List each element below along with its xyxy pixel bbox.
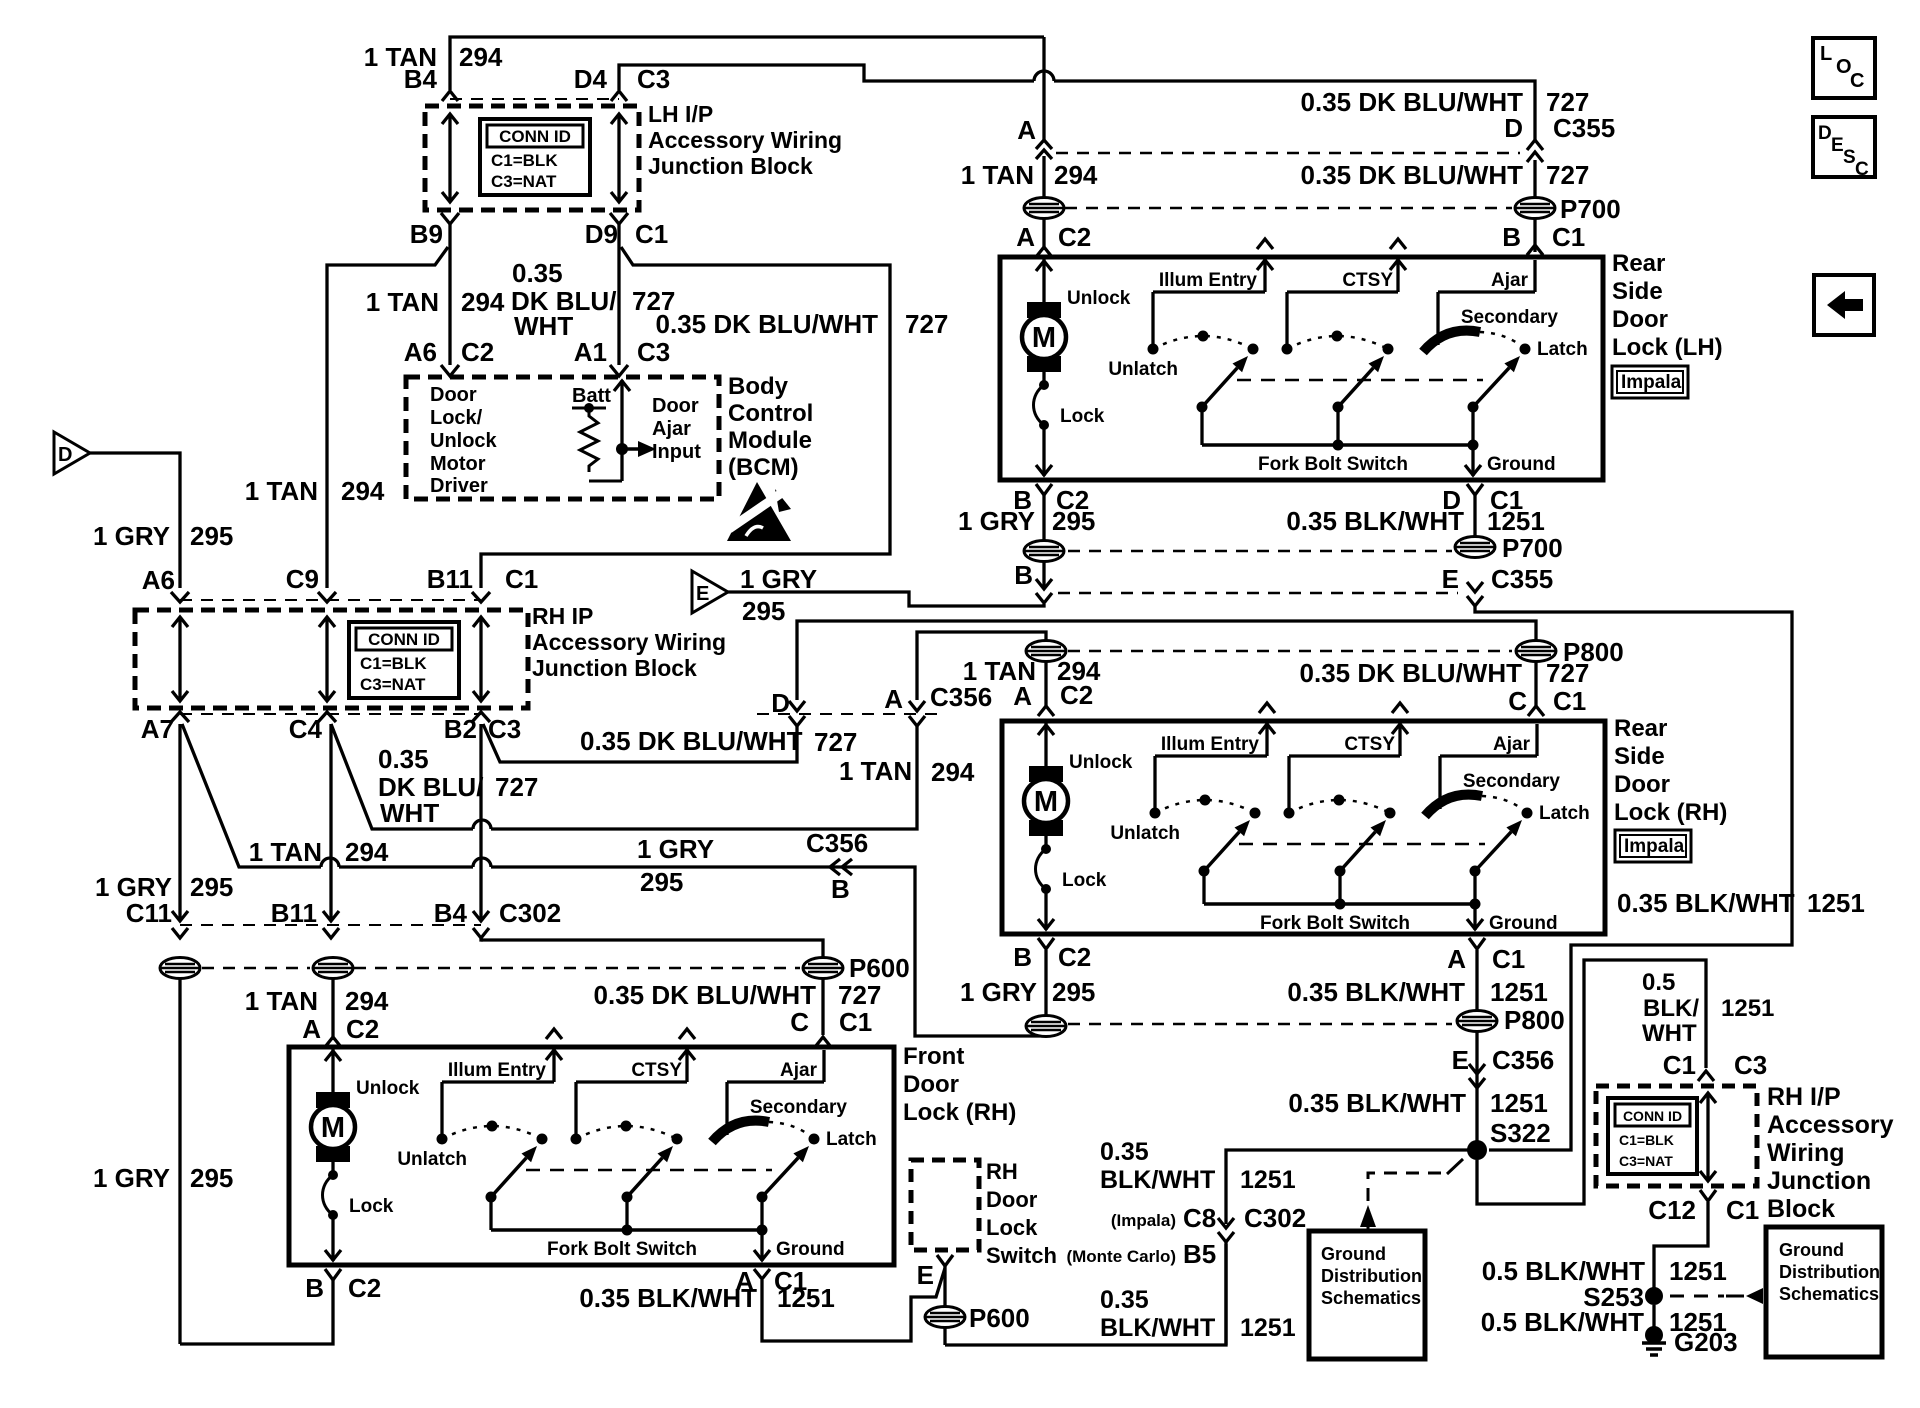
BCM door ajar input wire [614, 380, 630, 481]
svg-text:Fork Bolt Switch: Fork Bolt Switch [1260, 913, 1410, 934]
svg-text:Lock (RH): Lock (RH) [903, 1099, 1016, 1126]
LOC legend box [1813, 38, 1875, 98]
svg-text:C3: C3 [488, 714, 521, 744]
svg-text:295: 295 [1052, 506, 1095, 536]
label P600 [849, 953, 910, 983]
wire 0.35 BLK/WHT 1251 E/C355 to S322 [1475, 606, 1792, 1150]
wire 727 P800 to rear RH pin C [1534, 661, 1537, 706]
svg-text:C356: C356 [930, 682, 992, 712]
CONN ID table (LH junction block) [480, 119, 590, 195]
svg-text:727: 727 [838, 980, 881, 1010]
svg-text:Driver: Driver [430, 475, 488, 497]
svg-text:Body: Body [728, 373, 789, 400]
svg-text:Illum Entry: Illum Entry [448, 1060, 547, 1081]
grommet on 1 GRY (P800 row 2) [1026, 1016, 1066, 1037]
connector C355 lower face (dashed) [1058, 592, 1458, 595]
pin A of C355 (294) [1017, 115, 1052, 159]
svg-text:0.5: 0.5 [1642, 969, 1675, 996]
pin B2/C3 of RH IP junction block [444, 712, 522, 744]
pin C4 of RH IP junction block [289, 712, 336, 744]
svg-text:Input: Input [652, 441, 701, 463]
svg-text:Lock (LH): Lock (LH) [1612, 334, 1723, 361]
svg-text:B2: B2 [444, 714, 477, 744]
pin C8/B5 chevrons on C302 [1218, 1218, 1234, 1242]
label RH I/P Accessory Wiring Junction Block (lower) [1767, 1083, 1894, 1223]
svg-text:Ground: Ground [1489, 913, 1558, 934]
svg-text:C302: C302 [1244, 1203, 1306, 1233]
svg-text:M: M [321, 1112, 345, 1144]
svg-text:M: M [1032, 322, 1056, 354]
svg-text:C1: C1 [1552, 222, 1585, 252]
svg-text:(Impala): (Impala) [1111, 1211, 1176, 1230]
svg-text:CTSY: CTSY [1342, 270, 1393, 291]
rear side door lock (RH) illum entry switch [1110, 703, 1275, 904]
svg-text:Unlock: Unlock [1069, 752, 1133, 773]
label P800 [1563, 637, 1624, 667]
pin D of C355 [1504, 113, 1615, 162]
wire front ground A/C1 to P600 bus [762, 1268, 945, 1341]
label S322 [1490, 1118, 1551, 1148]
svg-text:C3=NAT: C3=NAT [360, 675, 426, 694]
svg-text:727: 727 [1546, 658, 1589, 688]
CONN ID table (RH I/P lower block) [1608, 1098, 1697, 1174]
label 1 TAN 294 (C9 wire) [245, 476, 385, 506]
dashed line P600 row [202, 967, 800, 970]
label P700 [1560, 194, 1621, 224]
label Rear Side Door Lock (LH) [1612, 250, 1723, 361]
wire E through P600 to C302 [945, 1244, 1226, 1345]
label 0.35 DK BLU/WHT (D9 wire) [511, 258, 675, 341]
svg-text:C1: C1 [505, 564, 538, 594]
svg-text:C3: C3 [637, 337, 670, 367]
svg-text:WHT: WHT [514, 311, 573, 341]
svg-text:L: L [1820, 43, 1832, 65]
wire 1 GRY rear RH B pin to grommet [1044, 950, 1047, 1036]
svg-text:727: 727 [1546, 160, 1589, 190]
svg-text:0.35 BLK/WHT: 0.35 BLK/WHT [1287, 977, 1465, 1007]
svg-text:Ajar: Ajar [780, 1060, 818, 1081]
resistor in BCM (Batt pull-up) [572, 385, 622, 481]
label 0.35 BLK/WHT 1251 (rear LH gnd) [1286, 506, 1545, 536]
svg-text:(BCM): (BCM) [728, 454, 799, 481]
rear side door lock (LH) ground pin wire [1465, 445, 1556, 476]
svg-text:Junction: Junction [1767, 1167, 1871, 1195]
label 0.35 BLK/WHT 1251 (rear RH gnd) [1287, 977, 1548, 1007]
grommet on 294 wire (P700 row) [1024, 198, 1064, 219]
svg-text:Wiring: Wiring [1767, 1139, 1845, 1167]
svg-text:C2: C2 [1058, 222, 1091, 252]
label 1 GRY 295 (left) [93, 521, 233, 551]
svg-text:E: E [1452, 1045, 1469, 1075]
RH I/P junction block dashed box (lower right) [1596, 1086, 1757, 1186]
svg-text:Door: Door [986, 1187, 1038, 1212]
pin B/C2 of rear LH door lock (bottom) [1013, 484, 1089, 515]
RH IP block internal wire A6-A7 [172, 617, 188, 701]
svg-text:0.35 DK BLU/WHT: 0.35 DK BLU/WHT [1301, 160, 1524, 190]
front door lock (RH) ajar switch with secondary contact [712, 1050, 877, 1230]
rear side door lock (LH) ajar switch with secondary contact [1423, 260, 1588, 445]
svg-text:Lock: Lock [986, 1215, 1038, 1240]
svg-text:Ground: Ground [776, 1239, 845, 1260]
svg-text:1251: 1251 [1240, 1166, 1296, 1194]
wire 1251 rear RH to P800 [1475, 950, 1478, 1010]
front door lock (RH) illum entry switch [397, 1029, 562, 1230]
dashed line P700 ground row [1068, 550, 1452, 553]
pin C1/C3 of RH IP junction block (lower right) [1663, 1050, 1768, 1081]
svg-text:E: E [917, 1260, 934, 1290]
wire 294 A-C355 to A/C2 [1042, 156, 1045, 250]
label Body Control Module (BCM) [728, 373, 813, 481]
svg-text:Unlock: Unlock [356, 1078, 420, 1099]
svg-text:C356: C356 [806, 828, 868, 858]
pin A/C2 of rear LH door lock [1016, 222, 1091, 257]
svg-text:C1=BLK: C1=BLK [360, 654, 427, 673]
LH I/P junction block dashed box [425, 106, 639, 210]
svg-text:0.35 BLK/WHT: 0.35 BLK/WHT [1617, 888, 1795, 918]
svg-text:A6: A6 [142, 565, 175, 595]
front door lock (RH) fork bolt switch common bus [491, 1225, 768, 1261]
svg-text:Schematics: Schematics [1321, 1288, 1421, 1308]
labels 0.35 BLK/WHT 1251 (lower) [1100, 1286, 1296, 1342]
svg-text:Motor: Motor [430, 453, 486, 475]
svg-text:D: D [58, 444, 72, 466]
svg-text:A7: A7 [141, 714, 174, 744]
svg-text:C3=NAT: C3=NAT [1619, 1153, 1673, 1169]
Impala tag (RH) [1615, 830, 1691, 862]
label RH Door Lock Switch [986, 1159, 1057, 1268]
svg-text:A: A [1016, 222, 1035, 252]
svg-text:P600: P600 [849, 953, 910, 983]
svg-text:WHT: WHT [380, 798, 439, 828]
connector P700 grommet (ground row) [1455, 537, 1495, 558]
svg-text:A: A [1447, 944, 1466, 974]
grommet on 1 TAN wire [313, 958, 353, 979]
svg-text:294: 294 [341, 476, 385, 506]
svg-text:C: C [1850, 70, 1864, 92]
svg-text:C4: C4 [289, 714, 323, 744]
rear side door lock (RH) ajar switch with secondary contact [1425, 724, 1590, 904]
svg-text:Front: Front [903, 1043, 964, 1070]
svg-text:294: 294 [1054, 160, 1098, 190]
svg-text:Module: Module [728, 427, 812, 454]
wire 1 GRY 295 A7 down to C11 [172, 724, 188, 921]
svg-text:1251: 1251 [1490, 977, 1548, 1007]
svg-text:P800: P800 [1504, 1005, 1565, 1035]
svg-text:Door: Door [1612, 306, 1668, 333]
rear side door lock (RH) box outline [1002, 721, 1605, 934]
labels B11 B4 C302 [271, 898, 561, 928]
svg-text:B: B [831, 874, 850, 904]
svg-text:D: D [1504, 113, 1523, 143]
svg-text:Impala: Impala [1621, 372, 1682, 393]
svg-text:B5: B5 [1183, 1239, 1216, 1269]
CONN ID table (RH IP junction block) [349, 622, 459, 698]
wire 0.35 DK BLU/WHT D9 to BCM loop [481, 224, 890, 588]
svg-text:0.35 DK BLU/WHT: 0.35 DK BLU/WHT [1300, 658, 1523, 688]
wire 0.35 DK BLU/WHT 727 C356-D to P800 [797, 621, 1536, 700]
RH IP junction block connector face (dashed) [180, 599, 481, 601]
wire 1 GRY below grommet [178, 978, 181, 1344]
svg-text:Illum Entry: Illum Entry [1161, 734, 1260, 755]
svg-text:Unlock: Unlock [430, 430, 498, 452]
svg-text:C9: C9 [286, 564, 319, 594]
pin A6 of RH IP junction block [142, 565, 189, 602]
back arrow legend box [1814, 275, 1874, 335]
svg-text:C355: C355 [1553, 113, 1615, 143]
labels 0.35 BLK/WHT 1251 (C302-C8 wire) [1100, 1138, 1296, 1194]
svg-text:294: 294 [459, 42, 503, 72]
pin A of C356 [884, 684, 925, 726]
rear side door lock (RH) CTSY switch [1284, 703, 1409, 904]
BCM door ajar input arrow [622, 395, 701, 463]
wire 1 TAN 294 B9 to C9 [327, 224, 450, 588]
pin B/C2 of rear RH door lock (bottom) [1013, 938, 1091, 972]
svg-text:Secondary: Secondary [1463, 771, 1561, 792]
wire 1 TAN 294 C356-A to rear RH motor [917, 632, 1046, 700]
svg-text:C1: C1 [1726, 1195, 1759, 1225]
svg-text:Lock: Lock [1060, 406, 1105, 427]
wire 1 GRY 295 A7 to C356-B [182, 724, 1046, 1036]
svg-text:E: E [1442, 564, 1459, 594]
pin B9 of LH junction block [410, 213, 459, 249]
svg-text:Batt: Batt [572, 385, 611, 407]
front door lock (RH) switch mechanical link (dashed) [526, 1169, 772, 1172]
rear side door lock (RH) ground pin wire [1467, 904, 1558, 934]
wire 1 TAN 294 C4 to C356-A [331, 724, 917, 829]
svg-text:1251: 1251 [1490, 1088, 1548, 1118]
label C3 (D4 wire) [637, 64, 670, 94]
svg-text:Side: Side [1612, 278, 1663, 305]
svg-text:0.35 DK BLU/WHT: 0.35 DK BLU/WHT [580, 726, 803, 756]
svg-text:C1: C1 [635, 219, 668, 249]
svg-text:Control: Control [728, 400, 813, 427]
dashed branch to ground distribution (left) [1360, 1159, 1463, 1229]
label C1 (D9 wire) [635, 219, 668, 249]
RH IP junction block dashed box [135, 610, 528, 708]
svg-text:C2: C2 [1060, 680, 1093, 710]
svg-text:A1: A1 [574, 337, 607, 367]
rear side door lock (LH) fork bolt switch common bus [1202, 440, 1479, 476]
ground G203 [1642, 1326, 1738, 1357]
wire 1 TAN below grommet [331, 978, 334, 1040]
svg-text:Lock (RH): Lock (RH) [1614, 799, 1727, 826]
wire 0.35 DK BLU/WHT 727 from D4 to C355 [619, 65, 1535, 140]
svg-text:Ajar: Ajar [1493, 734, 1531, 755]
rear side door lock (LH) box outline [1000, 257, 1603, 480]
label 1 TAN 294 (B9 wire) [366, 287, 505, 317]
svg-text:C3: C3 [1734, 1050, 1767, 1080]
RH door lock switch dashed box [911, 1160, 979, 1250]
svg-text:Junction Block: Junction Block [648, 153, 813, 179]
pin E/C355 [1442, 564, 1554, 606]
svg-text:295: 295 [640, 867, 683, 897]
svg-text:1 GRY: 1 GRY [960, 977, 1037, 1007]
svg-text:C8: C8 [1183, 1203, 1216, 1233]
RH IP block internal wire C9-C4 [319, 617, 335, 701]
label 0.35 DK BLU/WHT 727 (below C355) [1301, 160, 1590, 190]
rear side door lock (RH) switch mechanical link (dashed) [1239, 843, 1485, 846]
svg-text:D: D [1818, 123, 1832, 144]
wire C8/B5 to P600 bus [1224, 1242, 1227, 1345]
svg-text:0.35 DK BLU/WHT: 0.35 DK BLU/WHT [594, 980, 817, 1010]
svg-text:RH I/P: RH I/P [1767, 1083, 1841, 1111]
svg-text:B: B [305, 1273, 324, 1303]
svg-text:Rear: Rear [1614, 715, 1667, 742]
pin A/C1 of front door lock [735, 1266, 807, 1296]
svg-text:C: C [790, 1007, 809, 1037]
label P600 (lower) [969, 1303, 1030, 1333]
connector C356 face (dashed) [757, 713, 940, 715]
svg-text:1 GRY: 1 GRY [637, 834, 714, 864]
pin B11/C1 of RH IP junction block [427, 564, 539, 602]
svg-text:Lock/: Lock/ [430, 407, 483, 429]
pin A/C1 of rear RH door lock (bottom) [1447, 938, 1525, 974]
label Rear Side Door Lock (RH) [1614, 715, 1727, 826]
svg-text:295: 295 [190, 1163, 233, 1193]
svg-text:1 GRY: 1 GRY [740, 564, 817, 594]
rear side door lock (LH) lock/unlock motor M [1022, 259, 1131, 372]
label 0.35 DK BLU/WHT 727 (BCM right) [656, 309, 949, 339]
svg-text:1251: 1251 [1240, 1314, 1296, 1342]
svg-text:Unlatch: Unlatch [1110, 823, 1180, 844]
svg-text:CONN ID: CONN ID [499, 127, 571, 146]
RH I/P block internal wire C1-C12 [1700, 1093, 1716, 1181]
rear side door lock (RH) lock/unlock motor M [1024, 723, 1133, 836]
pin C9 of RH IP junction block [286, 564, 336, 602]
label P700 (ground row) [1502, 533, 1563, 563]
front door lock (RH) CTSY switch [571, 1029, 696, 1230]
wire 727 D/C355 to P700 [1533, 160, 1536, 197]
svg-text:1251: 1251 [1487, 506, 1545, 536]
svg-text:B: B [1014, 560, 1033, 590]
svg-text:294: 294 [931, 757, 975, 787]
label 1 TAN 294 (A-C355) [961, 160, 1098, 190]
svg-text:Accessory Wiring: Accessory Wiring [648, 127, 842, 153]
svg-text:295: 295 [190, 872, 233, 902]
front door lock (RH) box outline [289, 1047, 894, 1265]
svg-text:B: B [1013, 942, 1032, 972]
svg-text:CONN ID: CONN ID [368, 630, 440, 649]
svg-text:0.5 BLK/WHT: 0.5 BLK/WHT [1481, 1307, 1644, 1337]
pin B4 chevron [473, 928, 489, 938]
page connector E (1 GRY 295) [692, 571, 728, 613]
svg-text:Unlock: Unlock [1067, 288, 1131, 309]
svg-text:C302: C302 [499, 898, 561, 928]
svg-text:C2: C2 [346, 1014, 379, 1044]
svg-text:0.35 DK BLU/WHT: 0.35 DK BLU/WHT [1301, 87, 1524, 117]
svg-text:Accessory Wiring: Accessory Wiring [532, 629, 726, 655]
pin C/C1 of front door lock [790, 1007, 872, 1047]
svg-text:295: 295 [1052, 977, 1095, 1007]
RH IP junction block lower face (dashed) [180, 713, 481, 715]
connector P600 grommet [803, 958, 843, 979]
svg-text:WHT: WHT [1642, 1020, 1697, 1047]
svg-text:Distribution: Distribution [1779, 1262, 1880, 1282]
svg-text:C3: C3 [637, 64, 670, 94]
svg-text:D4: D4 [574, 64, 608, 94]
ESD sensitive device symbol [727, 482, 791, 541]
wire S322 to C302 (C8/B5) [1226, 1150, 1477, 1224]
svg-text:294: 294 [345, 986, 389, 1016]
svg-text:1 TAN: 1 TAN [839, 756, 912, 786]
label 0.35 DK BLU/WHT 727 (P600-C wire) [594, 980, 882, 1010]
pin B11 chevron [323, 928, 339, 938]
svg-text:RH: RH [986, 1159, 1018, 1184]
svg-text:Distribution: Distribution [1321, 1266, 1422, 1286]
svg-text:Ground: Ground [1321, 1244, 1386, 1264]
Impala tag (LH) [1612, 366, 1688, 398]
wire 1 TAN 294 from B4 to top right bus [450, 37, 1044, 90]
label 0.5 BLK/WHT 1251 (C1 wire) [1642, 969, 1774, 1047]
svg-text:1 TAN: 1 TAN [249, 837, 322, 867]
svg-text:C2: C2 [348, 1273, 381, 1303]
svg-text:0.35: 0.35 [1100, 1138, 1149, 1166]
grommet on 294 wire (P800 row) [1026, 641, 1066, 662]
svg-text:0.35: 0.35 [512, 258, 563, 288]
svg-text:B11: B11 [271, 898, 317, 928]
svg-text:Latch: Latch [1537, 339, 1588, 360]
svg-text:727: 727 [814, 727, 857, 757]
svg-text:B9: B9 [410, 219, 443, 249]
svg-text:P700: P700 [1560, 194, 1621, 224]
LH junction block internal wire D4-D9 [611, 114, 627, 202]
svg-text:Illum Entry: Illum Entry [1159, 270, 1258, 291]
svg-text:1 GRY: 1 GRY [93, 1163, 170, 1193]
svg-text:Accessory: Accessory [1767, 1111, 1894, 1139]
pin E/C356 of rear RH ground [1452, 1045, 1555, 1088]
label 0.5 BLK/WHT 1251 (S253-G203) [1481, 1307, 1727, 1337]
svg-text:C1: C1 [839, 1007, 872, 1037]
svg-text:C1: C1 [1492, 944, 1525, 974]
svg-text:Lock: Lock [1062, 870, 1107, 891]
rear side door lock (LH) lock switch contact [1034, 372, 1105, 476]
svg-text:G203: G203 [1674, 1327, 1738, 1357]
svg-text:Latch: Latch [1539, 803, 1590, 824]
grommet on 1 GRY (P700 row 2) [1024, 541, 1064, 562]
svg-text:(Monte Carlo): (Monte Carlo) [1066, 1247, 1176, 1266]
svg-text:Door: Door [652, 395, 699, 417]
wire 0.35 DK BLU/WHT 727 B2 down to B4 [473, 724, 489, 921]
svg-text:Secondary: Secondary [750, 1097, 848, 1118]
svg-text:1251: 1251 [777, 1283, 835, 1313]
pin D9 of LH junction block [585, 213, 628, 249]
labels (Monte Carlo) B5 [1066, 1239, 1216, 1269]
label Door Lock/Unlock Motor Driver [430, 384, 498, 497]
svg-text:Secondary: Secondary [1461, 307, 1559, 328]
svg-text:C1=BLK: C1=BLK [1619, 1132, 1674, 1148]
pin A1 of BCM [574, 337, 628, 376]
svg-text:0.35: 0.35 [378, 744, 429, 774]
splice S322 [1467, 1140, 1487, 1160]
svg-text:M: M [1034, 786, 1058, 818]
pin C/C1 of rear RH door lock [1508, 686, 1586, 716]
svg-text:1 TAN: 1 TAN [245, 476, 318, 506]
label C2 (BCM pin) [461, 337, 494, 367]
pin E of RH door lock switch [917, 1255, 953, 1290]
pin D/C1 of rear LH door lock (bottom) [1442, 484, 1523, 515]
label 1 GRY 295 (rear LH) [958, 506, 1095, 536]
wire 727 P700 to B/C1 [1533, 219, 1536, 252]
pin C12/C1 of RH IP junction block [1648, 1190, 1759, 1225]
wire 0.5 BLK/WHT C12 to S253 [1654, 1202, 1708, 1288]
label 0.35 DK BLU/WHT 727 (B2-D wire) [580, 726, 857, 757]
svg-text:BLK/WHT: BLK/WHT [1100, 1166, 1215, 1194]
wire front motor B to ground bus [180, 1280, 333, 1344]
svg-text:Ground: Ground [1779, 1240, 1844, 1260]
label Front Door Lock (RH) [903, 1043, 1016, 1126]
ground distribution schematics box (right) [1766, 1227, 1882, 1357]
pin B/C2 of front door lock [305, 1269, 381, 1303]
